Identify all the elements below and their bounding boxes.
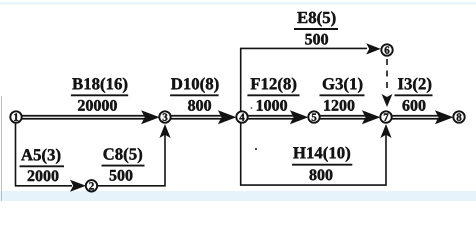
wire: arc 1-2 (A5) down then right <box>16 123 73 186</box>
node 5 <box>308 111 319 122</box>
arrowhead into node 4 (bold) <box>218 110 237 124</box>
label E8(5)/500 <box>294 11 338 44</box>
wire: arc 4-7 (H14) down, right, up <box>241 123 386 185</box>
label I3(2)/600 <box>395 78 433 111</box>
wire: dashed dummy 6-7 <box>386 59 388 93</box>
arrowhead up into node 3 (from C8) <box>159 124 170 138</box>
stray dot speck 2 <box>251 107 253 109</box>
bottom pale blue strip <box>0 191 476 201</box>
arrowhead up into node 7 (from H14) <box>380 124 391 138</box>
node 8 <box>453 111 464 122</box>
label G3(1)/1200 <box>320 78 365 111</box>
faint page-edge line left <box>1 96 3 201</box>
arrowhead into node 8 (bold) <box>435 110 454 124</box>
node 4 <box>236 111 247 122</box>
node 3 <box>159 111 170 122</box>
wire: arc 5-7 double line <box>320 115 368 117</box>
node 7 <box>380 111 391 122</box>
wire: arc 3-4 double line <box>171 115 224 117</box>
label D10(8)/800 <box>170 78 219 111</box>
label F12(8)/1000 <box>247 78 299 111</box>
arrowhead into node 6 <box>366 43 381 54</box>
node 6 <box>381 44 392 55</box>
wire: arc 7-8 double line <box>392 115 441 117</box>
arrowhead down into node 7 (dummy) <box>382 94 393 107</box>
label B18(16)/20000 <box>71 78 128 111</box>
label H14(10)/800 <box>292 147 352 181</box>
label C8(5)/500 <box>102 148 145 181</box>
wire: arc 4-6 (E8) up then right <box>241 48 367 111</box>
arrowhead into node 5 (bold) <box>290 110 309 124</box>
wire: arc 1-3 double line <box>22 115 147 117</box>
arrowhead into node 3 (bold) <box>141 110 160 124</box>
label A5(3)/2000 <box>20 149 65 182</box>
wire: arc 4-5 double line <box>248 115 296 117</box>
node 2 <box>86 180 97 191</box>
arrowhead into node 2 <box>70 180 86 192</box>
top pale blue strip <box>0 2 476 5</box>
arrowhead into node 7 (bold) <box>362 110 381 124</box>
wire: arc 2-3 (C8) right then up <box>98 129 166 186</box>
stray dot speck <box>255 148 257 150</box>
node 1 <box>10 111 21 122</box>
